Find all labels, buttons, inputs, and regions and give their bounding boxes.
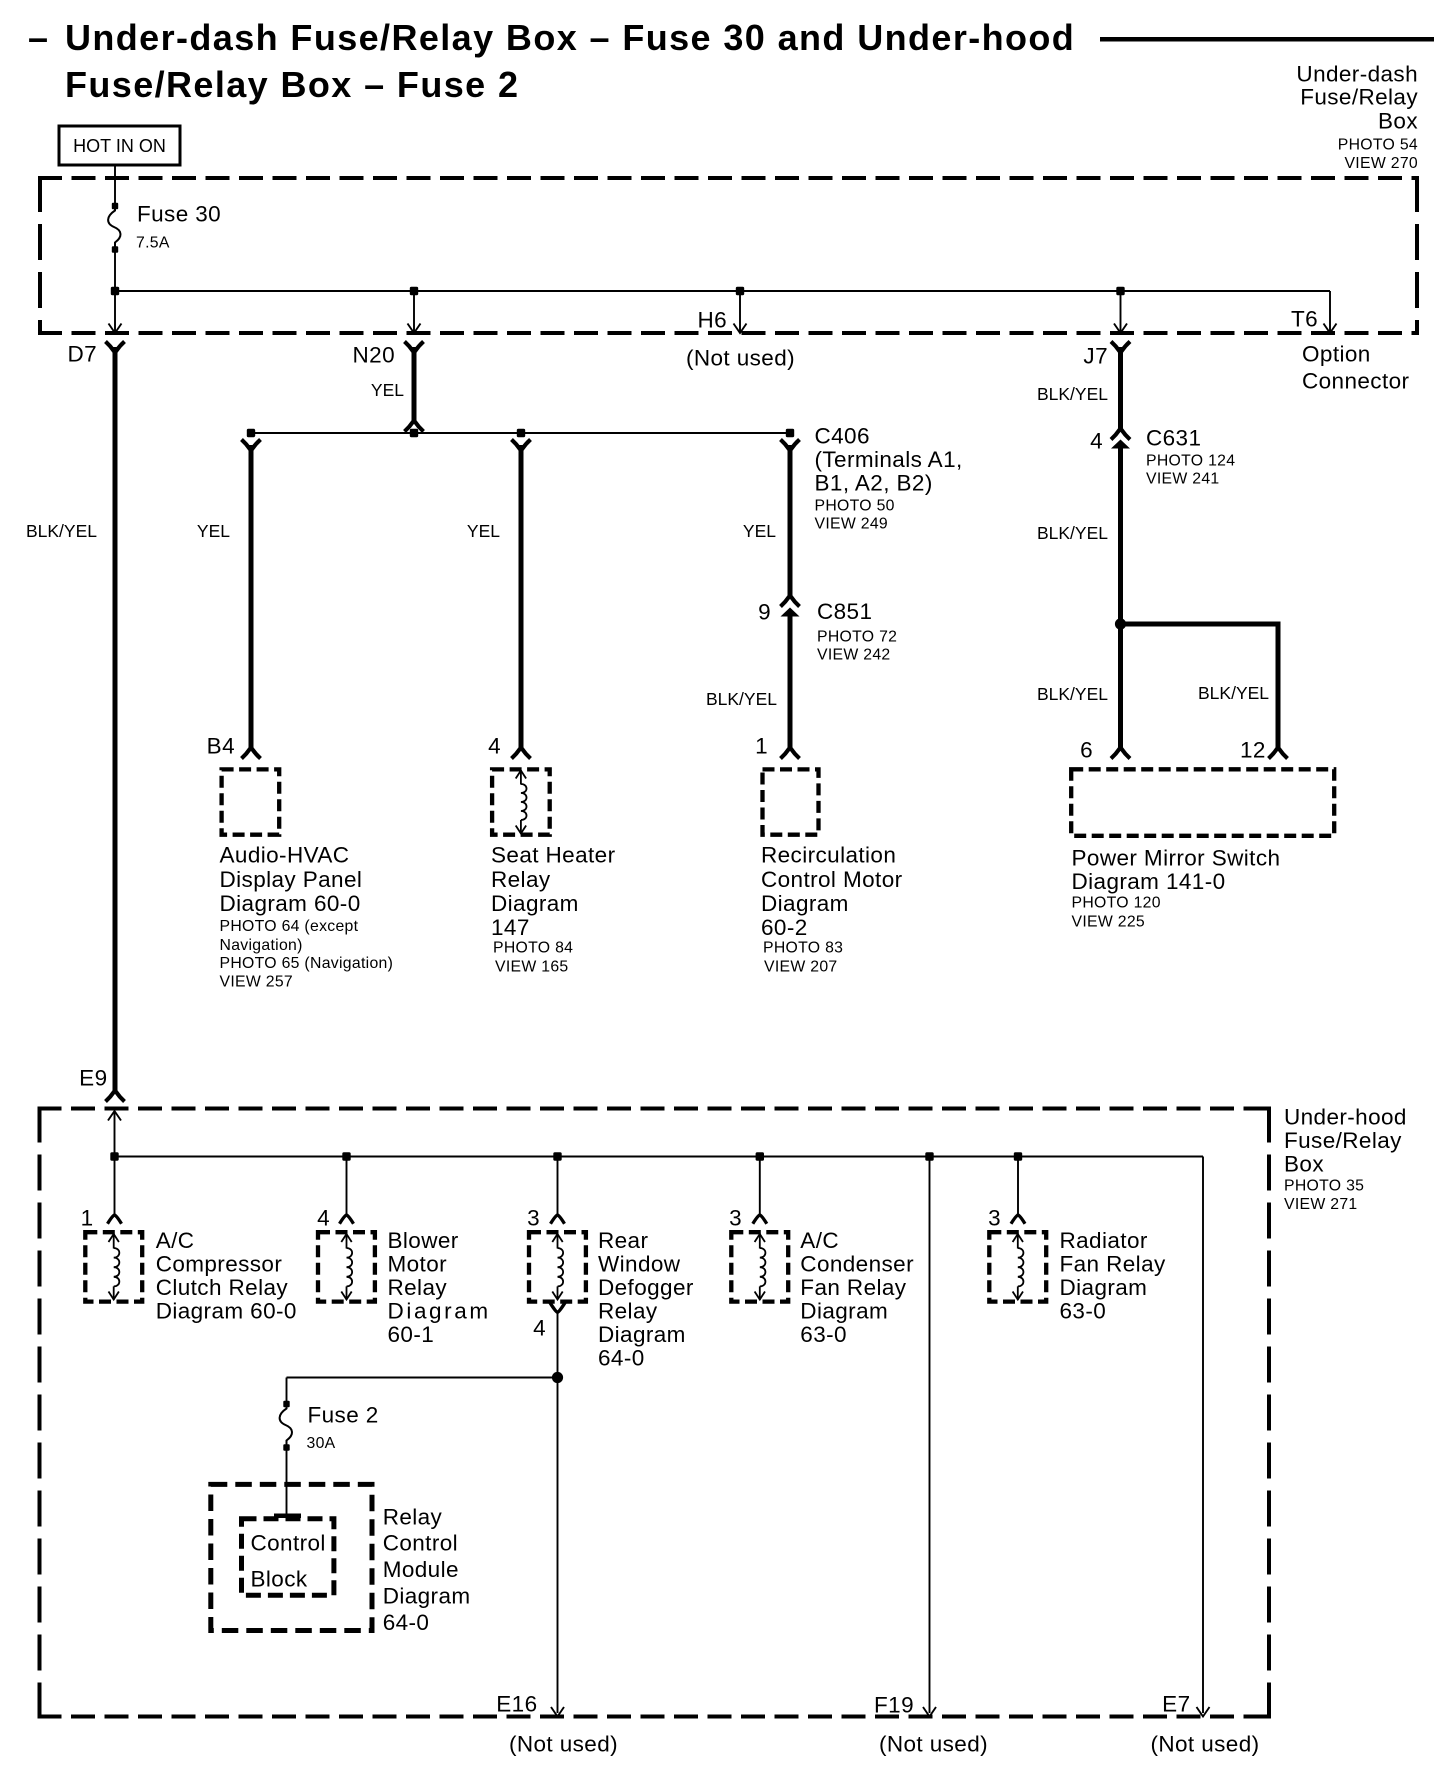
svg-text:Navigation): Navigation) (220, 937, 303, 954)
relay A/C Compressor Clutch (dashed box with coil) (85, 1232, 142, 1301)
svg-text:Diagram: Diagram (598, 1322, 686, 1347)
svg-text:Fuse/Relay: Fuse/Relay (1300, 85, 1418, 110)
svg-text:Under-dash: Under-dash (1296, 62, 1418, 87)
fuse F2 (Fuse 2 30A) (280, 1401, 379, 1452)
svg-text:64-0: 64-0 (598, 1346, 645, 1371)
svg-text:Control: Control (383, 1530, 458, 1555)
svg-text:VIEW 271: VIEW 271 (1284, 1196, 1358, 1213)
svg-text:Diagram: Diagram (800, 1299, 888, 1324)
wire fuse to bus (114, 251, 116, 291)
svg-text:VIEW 225: VIEW 225 (1072, 913, 1146, 930)
svg-text:BLK/YEL: BLK/YEL (706, 689, 777, 709)
svg-text:Relay: Relay (491, 867, 551, 892)
svg-text:A/C: A/C (156, 1228, 195, 1253)
svg-text:Radiator: Radiator (1060, 1228, 1148, 1253)
connector C631 (1111, 428, 1130, 449)
svg-text:B1, A2, B2): B1, A2, B2) (815, 471, 933, 496)
svg-text:64-0: 64-0 (383, 1610, 430, 1635)
svg-text:1: 1 (81, 1206, 94, 1231)
component Radiator Fan label (1060, 1228, 1166, 1324)
svg-text:1: 1 (755, 734, 768, 759)
wire D7 BLK/YEL trunk (106, 342, 125, 1102)
svg-text:Motor: Motor (388, 1252, 448, 1277)
svg-text:Box: Box (1284, 1152, 1324, 1177)
terminal bar at control block (274, 1514, 301, 1519)
svg-text:4: 4 (1090, 429, 1103, 454)
svg-text:B4: B4 (207, 734, 235, 759)
svg-text:Fuse/Relay: Fuse/Relay (1284, 1128, 1402, 1153)
svg-text:7.5A: 7.5A (136, 235, 170, 252)
svg-text:3: 3 (988, 1206, 1001, 1231)
svg-text:VIEW 270: VIEW 270 (1344, 155, 1418, 172)
svg-text:PHOTO 120: PHOTO 120 (1072, 894, 1161, 911)
svg-text:YEL: YEL (371, 380, 404, 400)
svg-text:Recirculation: Recirculation (761, 843, 896, 868)
svg-text:–: – (28, 17, 49, 58)
wire drop to radiator relay pin 3 (1011, 1157, 1025, 1224)
wire YEL branch bus (251, 432, 790, 434)
svg-text:Fan Relay: Fan Relay (1060, 1252, 1166, 1277)
connector C851 label (817, 599, 897, 664)
svg-text:60-2: 60-2 (761, 915, 808, 940)
svg-text:Diagram: Diagram (491, 891, 579, 916)
svg-text:6: 6 (1080, 738, 1093, 763)
wire E16 exit arrow (551, 1707, 564, 1717)
svg-text:Window: Window (598, 1252, 681, 1277)
svg-text:A/C: A/C (800, 1228, 839, 1253)
svg-text:147: 147 (491, 915, 530, 940)
svg-text:Power Mirror Switch: Power Mirror Switch (1072, 846, 1281, 871)
svg-text:BLK/YEL: BLK/YEL (26, 521, 97, 541)
svg-text:Fuse 30: Fuse 30 (137, 202, 221, 227)
svg-text:3: 3 (729, 1206, 742, 1231)
svg-text:T6: T6 (1291, 307, 1318, 332)
svg-text:C631: C631 (1146, 426, 1201, 451)
svg-text:Diagram 60-0: Diagram 60-0 (156, 1299, 297, 1324)
svg-text:(Terminals A1,: (Terminals A1, (815, 447, 963, 472)
wire J7 BLK/YEL upper (1111, 342, 1130, 432)
svg-text:Condenser: Condenser (800, 1252, 914, 1277)
component A/C Condenser label (800, 1228, 914, 1347)
svg-text:PHOTO 50: PHOTO 50 (815, 498, 895, 515)
svg-text:Control: Control (251, 1530, 326, 1555)
label Control Block (251, 1530, 326, 1591)
svg-text:Seat Heater: Seat Heater (491, 843, 616, 868)
svg-text:PHOTO 35: PHOTO 35 (1284, 1177, 1364, 1194)
svg-text:(Not used): (Not used) (686, 346, 795, 371)
wire J7 BLK/YEL lower to pin 6 (1111, 448, 1130, 759)
svg-text:YEL: YEL (197, 521, 230, 541)
svg-text:C406: C406 (815, 424, 870, 449)
svg-text:VIEW 257: VIEW 257 (220, 973, 294, 990)
svg-text:12: 12 (1240, 738, 1266, 763)
svg-text:PHOTO 124: PHOTO 124 (1146, 453, 1235, 470)
svg-text:Block: Block (251, 1567, 308, 1592)
svg-text:H6: H6 (697, 308, 727, 333)
connector C631 label (1146, 426, 1235, 488)
fuse F30 (Fuse 30 7.5A) (108, 202, 221, 253)
wire fuse 2 to control block (286, 1450, 288, 1514)
connector C851 (781, 595, 800, 617)
svg-text:HOT IN ON: HOT IN ON (73, 136, 166, 156)
wire drop to defogger relay pin 3 (551, 1157, 565, 1224)
node branch junctions (247, 429, 794, 437)
wire E9 feed into under-hood box (108, 1111, 121, 1157)
component Audio-HVAC Display Panel (dashed box) (222, 769, 280, 834)
svg-text:D7: D7 (67, 342, 97, 367)
svg-text:BLK/YEL: BLK/YEL (1037, 384, 1108, 404)
page header title (28, 17, 1075, 105)
wire drop to blower relay pin 4 (340, 1157, 354, 1224)
wire drop to D7 (109, 291, 122, 333)
svg-text:Under-hood: Under-hood (1284, 1105, 1407, 1130)
svg-text:PHOTO 72: PHOTO 72 (817, 629, 897, 646)
under-hood fuse/relay box (dashed) (38, 1107, 1272, 1719)
svg-text:VIEW 249: VIEW 249 (815, 516, 889, 533)
svg-text:Compressor: Compressor (156, 1252, 283, 1277)
svg-text:Rear: Rear (598, 1228, 648, 1253)
relay Seat Heater (dashed box with coil) (492, 769, 550, 834)
under-dash fuse/relay box (dashed) (38, 176, 1419, 335)
svg-text:N20: N20 (353, 343, 395, 368)
svg-text:Fan Relay: Fan Relay (800, 1275, 906, 1300)
svg-text:3: 3 (527, 1206, 540, 1231)
wire under-hood bus (115, 1157, 1204, 1714)
svg-text:4: 4 (317, 1206, 330, 1231)
wire branch to Fuse 2 (287, 1378, 558, 1403)
svg-text:VIEW 165: VIEW 165 (495, 958, 569, 975)
svg-text:Diagram: Diagram (761, 891, 849, 916)
svg-text:Defogger: Defogger (598, 1275, 694, 1300)
svg-text:63-0: 63-0 (800, 1322, 847, 1347)
svg-text:Option: Option (1302, 342, 1371, 367)
svg-text:E7: E7 (1162, 1692, 1190, 1717)
svg-text:E9: E9 (79, 1066, 107, 1091)
svg-text:Diagram: Diagram (383, 1583, 471, 1608)
svg-text:4: 4 (488, 734, 501, 759)
svg-text:Diagram 141-0: Diagram 141-0 (1072, 869, 1226, 894)
svg-text:PHOTO 54: PHOTO 54 (1338, 137, 1418, 154)
power tag HOT IN ON (59, 126, 180, 165)
svg-text:PHOTO 83: PHOTO 83 (763, 939, 843, 956)
node bus junctions (111, 287, 1125, 295)
svg-text:Module: Module (383, 1557, 459, 1582)
component Seat Heater label (491, 843, 616, 976)
connector C406 label (815, 424, 963, 533)
wire drop to J7 (1114, 291, 1127, 333)
under-dash box annotation (1296, 62, 1418, 173)
svg-text:(Not used): (Not used) (879, 1732, 988, 1757)
wire recirc BLK/YEL lower (781, 616, 800, 759)
svg-text:Control Motor: Control Motor (761, 867, 903, 892)
svg-text:Connector: Connector (1302, 369, 1410, 394)
svg-text:BLK/YEL: BLK/YEL (1198, 683, 1269, 703)
relay Rear Window Defogger (dashed box with coil) (529, 1232, 586, 1301)
component Recirculation label (761, 843, 903, 976)
svg-text:BLK/YEL: BLK/YEL (1037, 523, 1108, 543)
svg-text:4: 4 (533, 1316, 546, 1341)
component Rear Window Defogger label (598, 1228, 694, 1371)
component Audio-HVAC label (220, 843, 394, 991)
wire defogger pin 4 down (550, 1303, 565, 1713)
svg-text:63-0: 63-0 (1060, 1299, 1107, 1324)
svg-text:YEL: YEL (467, 521, 500, 541)
node J7 branch junction (1115, 618, 1126, 629)
component Relay Control Module (outer dashed box) (211, 1484, 372, 1630)
svg-text:Relay: Relay (383, 1505, 443, 1530)
svg-text:Diagram 60-0: Diagram 60-0 (220, 891, 361, 916)
component Power Mirror Switch (dashed box) (1071, 769, 1334, 836)
svg-text:60-1: 60-1 (388, 1322, 435, 1347)
svg-text:BLK/YEL: BLK/YEL (1037, 684, 1108, 704)
svg-text:30A: 30A (307, 1435, 336, 1452)
component Recirculation Control Motor (dashed box) (763, 769, 819, 834)
wire N20 YEL (405, 342, 424, 432)
svg-text:F19: F19 (874, 1693, 914, 1718)
svg-text:Fuse/Relay Box – Fuse 2: Fuse/Relay Box – Fuse 2 (65, 64, 519, 105)
svg-text:9: 9 (758, 600, 771, 625)
svg-text:Blower: Blower (388, 1228, 459, 1253)
component Power Mirror Switch label (1072, 846, 1281, 931)
wire E7 exit arrow (1197, 1707, 1210, 1717)
svg-text:J7: J7 (1083, 344, 1108, 369)
component A/C Compressor label (156, 1228, 297, 1324)
svg-text:VIEW 242: VIEW 242 (817, 647, 891, 664)
wire under-dash bus (115, 291, 1330, 331)
wire to Seat Heater pin 4 (512, 440, 531, 759)
relay A/C Condenser Fan (dashed box with coil) (731, 1232, 788, 1301)
component Control Block (inner dashed box) (242, 1519, 334, 1596)
svg-text:(Not used): (Not used) (509, 1732, 618, 1757)
node fuse 2 branch junction (552, 1372, 563, 1383)
svg-text:Relay: Relay (598, 1299, 658, 1324)
svg-text:Audio-HVAC: Audio-HVAC (220, 843, 350, 868)
svg-text:PHOTO 64 (except: PHOTO 64 (except (220, 918, 359, 935)
under-hood box annotation (1284, 1105, 1407, 1213)
wire drop to A/C compressor relay pin 1 (108, 1157, 122, 1224)
component Blower Motor label (388, 1228, 491, 1347)
wire to Audio-HVAC pin B4 (242, 440, 261, 759)
svg-text:Fuse 2: Fuse 2 (308, 1403, 379, 1428)
title rule (1100, 37, 1434, 42)
svg-text:Under-dash Fuse/Relay Box – Fu: Under-dash Fuse/Relay Box – Fuse 30 and … (65, 17, 1075, 58)
wire HOT IN ON to Fuse 30 (114, 165, 116, 204)
svg-text:Box: Box (1378, 109, 1418, 134)
relay Blower Motor (dashed box with coil) (318, 1232, 375, 1301)
svg-text:Clutch Relay: Clutch Relay (156, 1275, 289, 1300)
svg-text:(Not used): (Not used) (1150, 1732, 1259, 1757)
svg-text:YEL: YEL (743, 521, 776, 541)
svg-text:C851: C851 (817, 599, 872, 624)
wire to Recirculation pin 1 (upper YEL) (781, 440, 800, 599)
svg-text:PHOTO 65 (Navigation): PHOTO 65 (Navigation) (220, 955, 394, 972)
wire branch to pin 12 (1121, 624, 1288, 759)
wire drop to T6 (1324, 324, 1337, 334)
svg-text:VIEW 241: VIEW 241 (1146, 471, 1220, 488)
component Relay Control Module label (383, 1505, 471, 1636)
svg-text:PHOTO 84: PHOTO 84 (493, 939, 573, 956)
wire drop to H6 (734, 291, 747, 333)
node under-hood bus junctions (110, 1152, 1022, 1160)
svg-text:Relay: Relay (388, 1275, 448, 1300)
relay Radiator Fan (dashed box with coil) (989, 1232, 1046, 1301)
wire drop to condenser relay pin 3 (753, 1157, 767, 1224)
svg-text:Diagram: Diagram (388, 1299, 491, 1324)
svg-text:Display Panel: Display Panel (220, 867, 363, 892)
wire drop to N20 (408, 291, 421, 333)
svg-text:Diagram: Diagram (1060, 1275, 1148, 1300)
svg-text:VIEW 207: VIEW 207 (764, 958, 838, 975)
wire F19 drop (923, 1157, 936, 1717)
svg-text:E16: E16 (496, 1692, 537, 1717)
